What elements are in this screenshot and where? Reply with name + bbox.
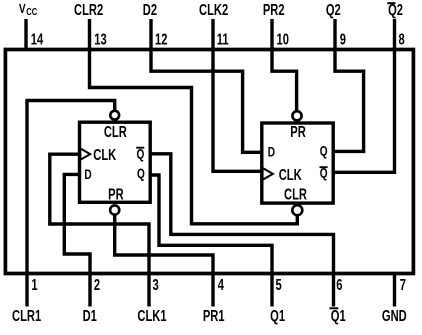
Q-bar-2 label <box>388 1 403 18</box>
D2 label <box>143 1 157 18</box>
Q-bar-1 label <box>331 307 346 324</box>
wire PR2: pin 10 to FF2 PR bubble <box>272 19 297 111</box>
FF1 PR label <box>108 186 124 203</box>
svg-text:CLK1: CLK1 <box>137 307 167 324</box>
svg-text:PR1: PR1 <box>203 307 225 324</box>
svg-text:D: D <box>84 166 91 182</box>
svg-text:CLK2: CLK2 <box>199 1 228 18</box>
CLR1 label <box>12 307 42 324</box>
FF1 CLR bubble <box>110 111 119 120</box>
flip-flop FF1 box <box>80 122 151 202</box>
wire Q-bar-2: pin 8 to FF2 Qbar output <box>333 19 394 172</box>
svg-text:1: 1 <box>31 276 38 293</box>
pin 8 number <box>399 31 406 48</box>
FF2 CLK label <box>279 166 302 183</box>
svg-text:2: 2 <box>94 276 100 293</box>
svg-text:7: 7 <box>400 276 406 293</box>
CLK2 label <box>199 1 228 18</box>
pin 14 number <box>31 31 44 48</box>
wire CLR2: pin 13 to FF2 CLR bubble <box>90 19 298 224</box>
pin 7 lead (GND) <box>393 274 396 307</box>
pin 9 number <box>340 31 346 48</box>
svg-text:Q1: Q1 <box>331 307 346 324</box>
pin 3 number <box>153 276 160 293</box>
svg-text:V: V <box>19 2 26 16</box>
FF1 PR bubble <box>110 205 119 214</box>
svg-text:GND: GND <box>382 307 407 324</box>
Q1 label <box>270 307 285 324</box>
Q2 label <box>326 1 341 18</box>
FF2 Qbar label <box>320 165 328 181</box>
FF1 CLK triangle <box>80 148 90 159</box>
pin 12 number <box>155 31 167 48</box>
Vcc label <box>19 2 26 16</box>
svg-text:14: 14 <box>31 31 44 48</box>
svg-text:CLK: CLK <box>279 166 302 183</box>
wire CLK1: pin 3 to FF1 CLK input <box>50 154 149 306</box>
svg-text:Q2: Q2 <box>326 1 341 18</box>
svg-text:CLR2: CLR2 <box>74 1 103 18</box>
svg-text:12: 12 <box>155 31 167 48</box>
pin 7 number <box>400 276 406 293</box>
svg-text:D: D <box>268 144 275 160</box>
GND label <box>382 307 407 324</box>
pin 13 number <box>94 31 107 48</box>
svg-text:D2: D2 <box>143 1 157 18</box>
FF1 D label <box>84 166 91 182</box>
pin 14 lead (Vcc) <box>24 19 27 49</box>
wire PR1: pin 4 to FF1 PR bubble <box>115 215 213 307</box>
FF2 D label <box>268 144 275 160</box>
svg-text:8: 8 <box>399 31 406 48</box>
CLK1 label <box>137 307 167 324</box>
svg-text:9: 9 <box>340 31 346 48</box>
FF2 PR label <box>290 123 306 140</box>
svg-text:PR: PR <box>290 123 306 140</box>
pin 5 number <box>276 276 283 293</box>
wire D2: pin 12 to FF2 D input <box>151 19 262 152</box>
wire Q-bar-1: pin 6 to FF1 Qbar output <box>150 154 333 307</box>
svg-text:CLR1: CLR1 <box>12 307 42 324</box>
PR1 label <box>203 307 225 324</box>
svg-text:13: 13 <box>94 31 107 48</box>
wire Q1: pin 5 to FF1 Q output <box>150 175 272 307</box>
pin 6 number <box>336 276 343 293</box>
FF2 CLR label <box>284 186 307 203</box>
pin 10 number <box>277 31 289 48</box>
svg-text:CLK: CLK <box>93 146 116 163</box>
FF1 Qbar label <box>137 146 145 162</box>
wire Q2: pin 9 to FF2 Q output <box>333 19 363 151</box>
wire D1: pin 2 to FF1 D input <box>64 174 90 306</box>
FF1 CLR label <box>104 123 127 140</box>
FF2 CLK triangle <box>263 168 273 180</box>
svg-text:3: 3 <box>153 276 160 293</box>
pin 11 number <box>217 31 229 48</box>
svg-text:CLR: CLR <box>284 186 307 203</box>
wire CLK2: pin 11 to FF2 CLK input <box>213 19 262 171</box>
svg-text:5: 5 <box>276 276 283 293</box>
PR2 label <box>263 1 285 18</box>
svg-text:Q: Q <box>137 165 145 181</box>
svg-text:PR2: PR2 <box>263 1 285 18</box>
IC package outline <box>5 50 413 274</box>
svg-text:6: 6 <box>336 276 343 293</box>
svg-text:11: 11 <box>217 31 229 48</box>
pin 4 number <box>218 276 225 293</box>
FF2 Q label <box>320 143 328 159</box>
svg-text:Q1: Q1 <box>270 307 285 324</box>
svg-text:PR: PR <box>108 186 124 203</box>
FF1 Q label <box>137 165 145 181</box>
svg-text:CLR: CLR <box>104 123 127 140</box>
wire CLR1: pin 1 up to FF1 CLR bubble <box>27 101 115 307</box>
svg-text:Q: Q <box>320 143 328 159</box>
CLR2 label <box>74 1 103 18</box>
FF2 CLR bubble <box>292 205 302 215</box>
svg-text:CC: CC <box>26 6 37 17</box>
svg-text:4: 4 <box>218 276 225 293</box>
D1 label <box>83 307 98 324</box>
FF2 PR bubble <box>292 111 301 120</box>
pin 2 number <box>94 276 100 293</box>
pin 1 number <box>31 276 38 293</box>
flip-flop FF2 box <box>262 123 333 203</box>
svg-text:D1: D1 <box>83 307 98 324</box>
svg-text:10: 10 <box>277 31 289 48</box>
FF1 CLK label <box>93 146 116 163</box>
